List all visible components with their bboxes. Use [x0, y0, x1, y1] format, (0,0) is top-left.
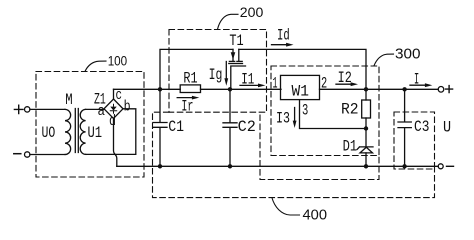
svg-text:I3: I3	[276, 109, 290, 127]
transformer primary winding U0	[65, 109, 71, 154]
zener diode D1	[357, 147, 373, 166]
svg-text:400: 400	[303, 208, 328, 224]
wire bus middle section	[201, 88, 282, 90]
terminal + left	[14, 105, 30, 113]
current arrow Ig	[209, 62, 229, 86]
label 100	[85, 53, 127, 71]
svg-text:a: a	[98, 103, 106, 120]
svg-text:I: I	[414, 71, 419, 89]
svg-text:C2: C2	[238, 118, 256, 136]
current arrow I1	[240, 70, 265, 88]
wire T1 source to right drop	[239, 49, 366, 89]
svg-text:b: b	[124, 98, 131, 115]
capacitor C2	[223, 89, 237, 166]
dashed box 200	[169, 30, 267, 113]
terminal - right	[438, 164, 453, 169]
junction rail-D1	[364, 164, 368, 168]
capacitor C1	[153, 89, 167, 166]
terminal + right	[438, 86, 452, 93]
wire W1 pin3 feedback	[300, 100, 367, 129]
terminal - left	[14, 152, 30, 157]
transformer secondary winding U1	[80, 109, 85, 154]
svg-text:U1: U1	[88, 124, 103, 142]
transistor T1	[229, 49, 246, 89]
label 200	[218, 5, 264, 29]
bridge rectifier Z1	[104, 99, 123, 119]
svg-text:R1: R1	[183, 70, 197, 88]
svg-text:3: 3	[302, 102, 308, 120]
junction bus-R2	[364, 87, 368, 91]
svg-text:M: M	[65, 91, 72, 109]
svg-text:T1: T1	[229, 32, 243, 50]
junction bus-C1	[158, 87, 162, 91]
junction rail-C3	[402, 164, 406, 168]
capacitor C3	[398, 89, 411, 166]
current arrow I	[410, 71, 432, 89]
svg-text:I2: I2	[338, 69, 352, 87]
wire bridge c to bus	[113, 89, 115, 99]
wire input top	[30, 108, 65, 110]
svg-text:d: d	[109, 113, 116, 130]
dashed box C3 output	[394, 112, 435, 169]
wire bridge b loop to secondary bottom	[86, 109, 136, 155]
label 300	[374, 46, 421, 66]
svg-text:U: U	[443, 118, 451, 136]
dashed box 300	[260, 66, 379, 180]
junction bus-C3	[402, 87, 406, 91]
resistor R2	[362, 89, 371, 147]
junction rail-C1	[158, 164, 162, 168]
svg-text:100: 100	[108, 53, 128, 68]
svg-text:I1: I1	[241, 70, 254, 88]
wire bottom rail	[117, 165, 438, 167]
wire secondary top to bridge a	[86, 108, 104, 110]
wire bridge d down with hop	[114, 119, 117, 167]
svg-text:UO: UO	[42, 124, 56, 142]
svg-text:Ig: Ig	[209, 66, 223, 84]
regulator W1	[281, 75, 320, 99]
dashed box 100	[36, 72, 144, 178]
current arrow I3	[276, 108, 297, 129]
resistor R1	[180, 85, 200, 93]
current arrow Ir	[177, 96, 199, 116]
junction rail-C2	[228, 164, 232, 168]
dashed box 400	[153, 112, 435, 197]
wire input bottom	[30, 154, 65, 156]
svg-text:Id: Id	[277, 27, 290, 45]
svg-text:Ir: Ir	[181, 98, 193, 116]
svg-text:W1: W1	[292, 83, 309, 101]
transformer core M	[75, 109, 78, 153]
svg-text:R2: R2	[341, 101, 359, 119]
svg-text:C3: C3	[414, 118, 429, 136]
wire riser to T1 drain	[160, 49, 233, 89]
svg-text:200: 200	[240, 5, 263, 20]
junction bus-C2-gate	[228, 87, 232, 91]
current arrow I2	[336, 69, 358, 87]
svg-text:300: 300	[395, 46, 421, 63]
label 400	[272, 198, 327, 224]
wire bus left section	[114, 88, 181, 90]
svg-text:C1: C1	[168, 118, 184, 136]
svg-text:1: 1	[273, 74, 278, 92]
current arrow Id	[272, 27, 294, 47]
wire bus right section	[320, 88, 439, 90]
svg-text:D1: D1	[343, 138, 358, 156]
junction R2-D1-pin3	[364, 126, 368, 130]
